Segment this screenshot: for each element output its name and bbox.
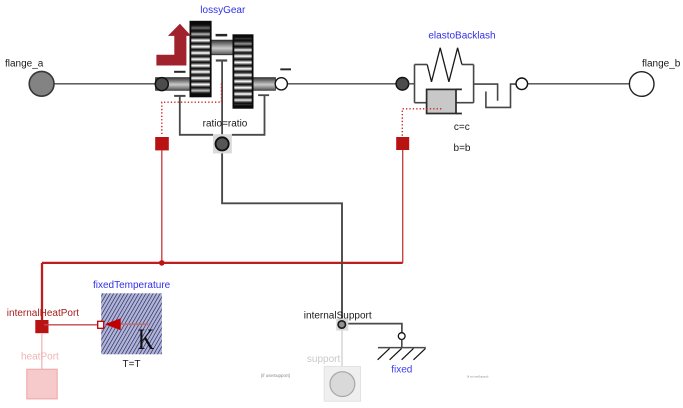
- right gear caps: [233, 35, 252, 38]
- svg-text:internalHeatPort: internalHeatPort: [7, 308, 79, 319]
- lossyGear support center leg: [216, 61, 227, 138]
- svg-text:support: support: [307, 354, 341, 365]
- internalSupport circle: [338, 321, 345, 328]
- wire internalSupport to fixed: [348, 324, 402, 333]
- fixed ground hatches: [378, 348, 426, 359]
- svg-text:fixedTemperature: fixedTemperature: [93, 280, 171, 291]
- lossyGear friction dash top: [216, 34, 228, 37]
- svg-text:K: K: [138, 322, 154, 356]
- lossyGear white shaft circle: [275, 78, 287, 90]
- svg-text:(if not useSupport): (if not useSupport): [467, 375, 488, 379]
- lossyGear right shaft: [253, 78, 276, 91]
- faint support line: [341, 331, 343, 384]
- heat junction: [159, 260, 165, 266]
- heat bus vertical to internalHeatPort: [41, 263, 43, 320]
- fixedTemperature arrow line: [121, 323, 149, 325]
- lossyGear inter-gear shaft: [211, 40, 234, 55]
- svg-text:c=c: c=c: [454, 122, 470, 133]
- elastoBacklash damper box: [427, 89, 456, 113]
- lossyGear bearing circle: [216, 137, 229, 150]
- wire node to frame: [409, 83, 415, 85]
- heat wire elastoBacklash down: [402, 150, 404, 263]
- heat wire lossyGear down: [161, 150, 163, 263]
- internalHeatPort square: [35, 320, 48, 333]
- flange_b connector: [629, 72, 654, 97]
- fixedTemperature hatched box: [101, 293, 162, 354]
- faint heat line: [41, 333, 43, 384]
- heat dotted wire from lossyGear: [162, 84, 222, 137]
- svg-text:b=b: b=b: [454, 143, 471, 154]
- heat port square elastoBacklash: [396, 137, 409, 150]
- fixedTemperature arrow: [105, 318, 121, 330]
- lossyGear support right leg: [232, 95, 269, 135]
- fixed stem: [401, 340, 403, 348]
- wire lossyGear to elastoBacklash node: [287, 83, 397, 85]
- heat bus horizontal: [42, 262, 403, 264]
- fixed ground line: [378, 347, 426, 349]
- lossyGear loss arrow: [156, 24, 191, 66]
- lossyGear left shaft: [156, 78, 192, 91]
- damper cylinder stubs: [456, 89, 462, 113]
- svg-text:elastoBacklash: elastoBacklash: [428, 31, 495, 42]
- left gear caps: [190, 22, 210, 25]
- elastoBacklash white circle: [516, 78, 528, 90]
- lossyGear friction dash right: [280, 68, 291, 70]
- internalSupport square: [336, 319, 348, 331]
- lossyGear support left leg: [174, 96, 213, 135]
- elastoBacklash backlash hooks: [474, 84, 498, 101]
- svg-text:(if useSupport): (if useSupport): [261, 373, 291, 378]
- wire flange_a to lossyGear: [54, 83, 157, 85]
- svg-text:flange_b: flange_b: [642, 58, 681, 69]
- fixed connector circle: [398, 333, 405, 340]
- heat port square lossyGear: [155, 137, 169, 150]
- lossyGear bearing square: [213, 134, 232, 153]
- heat dotted wire from elastoBacklash damper: [402, 109, 441, 137]
- lossyGear shaft end bearing circle: [155, 78, 168, 91]
- flange_a connector: [29, 71, 54, 96]
- svg-text:flange_a: flange_a: [5, 58, 44, 69]
- lossyGear right gearwheel: [233, 35, 252, 108]
- lossyGear left gearwheel: [190, 22, 210, 97]
- svg-text:ratio=ratio: ratio=ratio: [203, 118, 248, 129]
- support ghost square: [324, 366, 360, 401]
- svg-text:heatPort: heatPort: [21, 352, 59, 363]
- fixedTemperature port square: [98, 321, 104, 328]
- lossyGear friction dash left: [174, 71, 185, 73]
- svg-text:T=T: T=T: [122, 359, 140, 370]
- support ghost circle: [330, 372, 355, 397]
- heat wire internalHeatPort to fixedTemperature: [44, 324, 98, 326]
- elastoBacklash frame: [415, 65, 474, 103]
- svg-text:internalSupport: internalSupport: [304, 311, 372, 322]
- support wire from bearing to internalSupport: [222, 153, 342, 318]
- elastoBacklash node circle: [396, 78, 409, 91]
- svg-text:lossyGear: lossyGear: [200, 5, 246, 16]
- elastoBacklash spring: [427, 48, 462, 82]
- wire elastoBacklash to flange_b: [528, 83, 630, 85]
- svg-text:fixed: fixed: [391, 364, 412, 375]
- heatPort ghost square: [27, 369, 57, 399]
